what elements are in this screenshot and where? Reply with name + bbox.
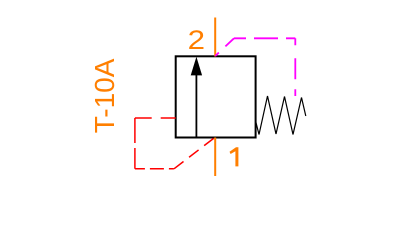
- port 1 line: [214, 138, 216, 177]
- pilot line (magenta dashed) horizontal segment: [234, 37, 295, 39]
- drain line (red dashed) diagonal segment: [174, 138, 215, 169]
- svg-text:2: 2: [188, 26, 205, 56]
- valve body V1 (square envelope): [176, 56, 256, 137]
- pilot line (magenta dashed) vertical segment: [294, 38, 296, 96]
- drain line (red dashed) left vertical segment: [134, 118, 136, 169]
- spring: [256, 96, 306, 135]
- flow arrow (shaft): [195, 75, 197, 138]
- flow arrow (head): [191, 57, 202, 76]
- drain line (red dashed) bottom horizontal segment: [135, 168, 174, 170]
- pilot line (magenta dashed) diagonal segment: [215, 38, 234, 56]
- port 1 label: [230, 147, 239, 166]
- drain line (red dashed) top horizontal segment: [135, 117, 176, 119]
- svg-text:T-10A: T-10A: [89, 58, 120, 133]
- port 2 line: [214, 18, 216, 57]
